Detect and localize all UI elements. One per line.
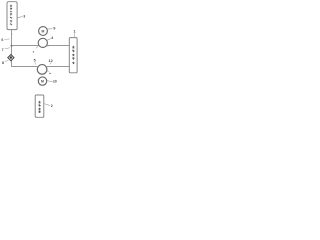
- label 6 leader: [4, 38, 9, 41]
- label 15 blob (roller R2): [49, 73, 51, 75]
- label 8 leader (diamond): [5, 60, 8, 62]
- node: junction dot on feed line: [11, 45, 13, 47]
- box B: control unit (right, vertical text): [69, 38, 77, 73]
- wire: vertical feed line lower part: [11, 55, 37, 66]
- label 3 leader (box A): [18, 16, 23, 17]
- box C vertical text glyphs: [38, 101, 40, 113]
- svg-text:2: 2: [51, 104, 53, 108]
- wire: web line W1 right segment: [47, 44, 69, 46]
- svg-text:8: 8: [2, 61, 4, 65]
- box B vertical text glyphs: [72, 46, 74, 64]
- svg-text:4: 4: [51, 36, 53, 40]
- svg-text:1: 1: [74, 30, 76, 34]
- wire: web line W2 right segment: [47, 65, 69, 67]
- box C: bottom unit (vertical text): [35, 95, 44, 117]
- svg-text:M: M: [42, 29, 45, 33]
- motor M1 circle (top): [39, 27, 48, 36]
- svg-text:6: 6: [1, 38, 3, 42]
- node: diamond center dot: [10, 56, 13, 59]
- roller R1 lower-right tick: [47, 45, 49, 46]
- label 9 leader (motor M1): [48, 28, 53, 30]
- label 1 leader (box B): [74, 33, 76, 38]
- label 7 leader: [5, 48, 10, 49]
- print head diamond 8: [8, 55, 14, 61]
- label 2 leader (box C): [44, 104, 50, 106]
- svg-text:3: 3: [23, 14, 25, 18]
- svg-text:9: 9: [53, 27, 55, 31]
- roller R2 circle (lower): [37, 65, 47, 75]
- label 5 leader (lower pair): [34, 62, 36, 64]
- svg-text:M: M: [41, 80, 44, 84]
- svg-text:12: 12: [49, 59, 53, 63]
- label 10 leader (motor M2): [47, 79, 54, 82]
- label 12 leader (lower pair): [50, 63, 51, 65]
- box A vertical text glyphs: [10, 4, 12, 25]
- roller R1 lower-left tick: [36, 46, 38, 48]
- svg-text:7: 7: [2, 48, 4, 52]
- svg-text:10: 10: [53, 79, 57, 83]
- label 13 arrow blob (roller R1): [32, 51, 34, 53]
- label 4 leader (roller R1): [47, 39, 51, 41]
- roller R1 circle (top): [38, 38, 47, 47]
- wire: web line W1 left segment: [11, 44, 38, 46]
- wire tick on feed line: [11, 34, 13, 35]
- roller R2 lower-right tick: [46, 69, 49, 72]
- wire: vertical feed line from box A: [10, 30, 12, 56]
- box A: controller unit (top-left, vertical text): [7, 2, 17, 30]
- motor M2 circle (lower): [38, 77, 46, 85]
- svg-text:5: 5: [34, 59, 36, 63]
